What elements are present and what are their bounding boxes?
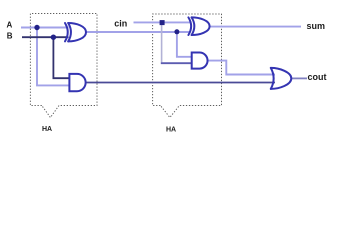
svg-text:HA: HA (42, 126, 52, 133)
svg-text:A: A (7, 21, 13, 30)
svg-text:HA: HA (166, 126, 176, 133)
svg-text:cin: cin (114, 19, 127, 29)
svg-text:B: B (7, 32, 13, 41)
svg-text:sum: sum (307, 21, 326, 31)
svg-text:cout: cout (308, 72, 327, 82)
